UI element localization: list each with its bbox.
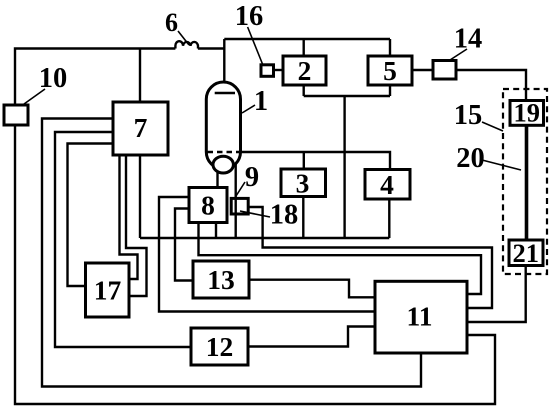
wire: box18 right via outer loop H2 to box11 right [248, 207, 492, 308]
svg-text:21: 21 [512, 238, 539, 268]
svg-text:3: 3 [296, 168, 310, 199]
leader 6 [178, 31, 189, 45]
svg-text:13: 13 [207, 264, 235, 295]
wire: top horizontal to box 5 [224, 38, 390, 40]
wire: box12 right to box11 left [248, 327, 375, 347]
svg-text:2: 2 [298, 55, 312, 86]
wire: line crossing box18 [234, 198, 236, 214]
svg-text:19: 19 [513, 97, 540, 127]
wire: box8 bottom stub to bus H1 [215, 223, 217, 239]
box 7 [113, 102, 168, 155]
wire: level line from tank to box4 corner [241, 152, 391, 170]
wire: box5 bottom drop [389, 85, 391, 96]
leader 1 [242, 105, 255, 113]
wire: box13 right to box11 left [249, 280, 375, 298]
svg-text:9: 9 [245, 162, 259, 193]
wire: box11 right big loop to box10 bottom [15, 125, 495, 404]
leader 20 [482, 160, 521, 170]
svg-text:15: 15 [454, 100, 483, 131]
leader 16 [248, 27, 263, 64]
wire: box16 to box2 [272, 69, 283, 71]
svg-text:1: 1 [254, 86, 268, 117]
tank 1 dashed level line [208, 151, 241, 153]
box 2 [283, 56, 326, 85]
box 16 [261, 65, 274, 77]
box 17 [86, 263, 130, 317]
wire: box8 left upper to box11 left (long bottom bus) [159, 197, 375, 312]
leader 15 [482, 122, 503, 131]
wire: box5 to box14 [412, 69, 433, 71]
box 12 [191, 328, 248, 365]
svg-text:8: 8 [201, 190, 215, 221]
svg-text:4: 4 [380, 169, 394, 200]
wire: box7 left A around bottom to box11 bottom [42, 119, 421, 387]
wire: tank bottom right line through box18 to bus H1 [234, 164, 236, 238]
box 19 [510, 101, 544, 126]
wire: box3 bottom to bus H1 [302, 197, 304, 239]
tank 1 bottom outlet circle [213, 156, 233, 173]
svg-text:10: 10 [39, 63, 68, 94]
svg-text:7: 7 [134, 112, 148, 143]
wire: box8 bottom to inner loop H3 to box11 right [199, 223, 482, 295]
box 21 [509, 240, 543, 266]
svg-text:12: 12 [206, 331, 234, 362]
wire: vertical into tank top electrode [223, 39, 225, 93]
wire: bus H1 horizontal [140, 237, 389, 239]
inductor 6 [175, 41, 198, 48]
box 8 [189, 188, 227, 223]
wire: combiner horizontal under 2 and 5 [304, 95, 390, 97]
wire: box7 left C to box17 left [68, 144, 114, 287]
svg-text:20: 20 [456, 143, 485, 174]
wire: inductor to tank junction [198, 47, 224, 49]
svg-text:11: 11 [407, 301, 433, 332]
leader 18 [240, 211, 270, 217]
wire: box2 bottom drop [303, 85, 305, 96]
svg-text:17: 17 [94, 275, 122, 306]
wire: box7 bottom 3 to bus H1 [139, 155, 141, 238]
wire: box7 bottom 2 staircase to box17 right lower [126, 155, 147, 296]
tank 1 top electrode chord [215, 92, 235, 94]
thick sensor line 20 [525, 125, 529, 240]
wire: box4 bottom to bus H1 [388, 199, 390, 238]
svg-text:14: 14 [454, 24, 483, 55]
svg-text:16: 16 [235, 1, 264, 32]
box 3 [281, 169, 326, 197]
box 4 [365, 170, 410, 200]
box 18 [231, 198, 248, 214]
wire: box7 left B to box12 left [55, 132, 191, 347]
box 5 [368, 56, 412, 85]
box 13 [193, 261, 249, 298]
svg-text:5: 5 [383, 55, 397, 86]
wire: box14 right to corner [456, 70, 526, 101]
box 11 [375, 281, 467, 353]
dashed enclosure 15 [503, 89, 547, 274]
leader 14 [450, 49, 467, 60]
wire: box21 bottom to box11 right [467, 266, 526, 323]
tank 1 body [206, 82, 240, 169]
wire: drop to box 2 top [303, 39, 305, 56]
wire: left vertical + top horizontal from box10 to inductor [15, 49, 175, 106]
box 14 [433, 61, 456, 80]
wire: branch down to box 3 [303, 152, 305, 169]
wire: drop to box 5 top [389, 39, 391, 56]
box 10 [4, 105, 28, 125]
leader 9 [236, 182, 245, 196]
wire: box8 left lower to box13 left [175, 209, 193, 281]
wire: center long vertical from combiner to bus H1 [343, 96, 345, 238]
leader 10 [24, 89, 45, 104]
wire: top wire to box7 top [139, 49, 141, 103]
wire: tank neck left into box8 [216, 172, 218, 188]
svg-text:6: 6 [165, 8, 178, 37]
svg-text:18: 18 [270, 200, 299, 231]
wire: box7 bottom 1 staircase to box17 right upper [120, 155, 138, 279]
